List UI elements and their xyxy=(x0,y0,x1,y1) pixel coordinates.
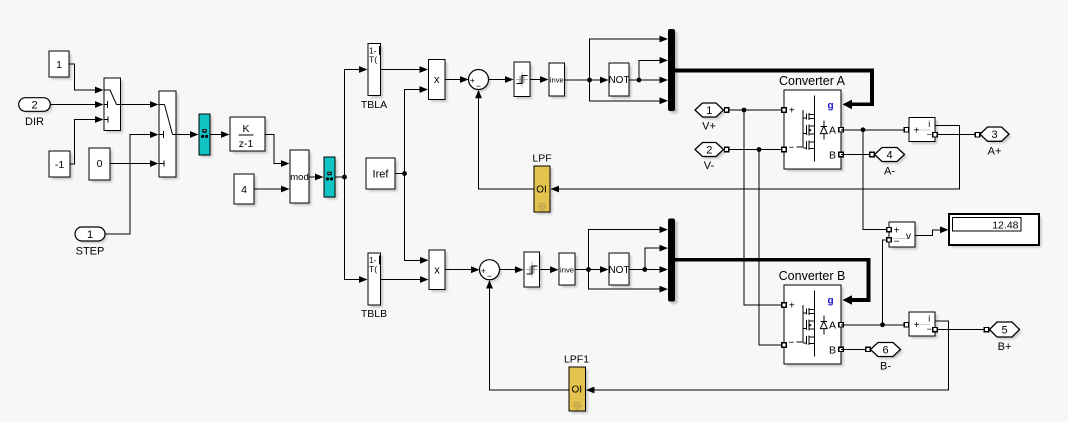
converter A subsystem xyxy=(779,74,846,172)
constant block 1 xyxy=(49,51,72,80)
wire V1 to display xyxy=(915,226,949,235)
wire RT1 to K/(z-1) xyxy=(210,131,230,138)
svg-text:5: 5 xyxy=(1001,325,1007,337)
wire I2 minus to B+ port xyxy=(933,327,990,331)
wire STEP to SW2 in2 xyxy=(106,131,159,234)
mux MX1 xyxy=(668,29,678,114)
LPF1 block xyxy=(564,354,589,414)
svg-text:A+: A+ xyxy=(988,146,1002,158)
wire inve1 to NOT1 xyxy=(565,77,609,84)
wire const1 to SW1 in1 xyxy=(69,64,104,93)
wire SW1 to SW2 in1 xyxy=(121,101,159,108)
switch SW2 xyxy=(159,91,179,180)
node J7 xyxy=(861,127,866,132)
svg-text:−: − xyxy=(894,237,900,248)
svg-text:+: + xyxy=(894,226,900,237)
svg-text:2: 2 xyxy=(706,145,712,157)
svg-text:+: + xyxy=(914,126,920,137)
svg-text:−: − xyxy=(788,143,794,154)
svg-text:K: K xyxy=(242,123,249,135)
sum S1 xyxy=(469,70,491,92)
Iref block xyxy=(366,158,398,192)
svg-text:OI: OI xyxy=(536,185,547,196)
svg-text:g: g xyxy=(827,295,833,306)
converter A port squares xyxy=(782,108,843,157)
svg-text:A-: A- xyxy=(884,166,895,178)
wire Iref to node J2 xyxy=(395,173,405,175)
wire P1 to S1 xyxy=(445,76,469,83)
wire TBLB to P2 in2 xyxy=(381,276,429,283)
svg-text:v: v xyxy=(906,231,911,242)
converter B port squares xyxy=(782,303,843,352)
relay RL1 xyxy=(514,62,533,99)
wire V- to converter A minus xyxy=(724,147,784,151)
node J10 xyxy=(880,322,885,327)
wire LPF to S1 feedback xyxy=(475,90,534,189)
display 12.48 xyxy=(949,214,1042,248)
svg-text:z-1: z-1 xyxy=(239,138,254,150)
wire J7 to V1 plus xyxy=(863,130,891,232)
svg-text:TBLB: TBLB xyxy=(361,308,387,320)
wire const0 to SW2 in3 xyxy=(110,160,159,167)
sum S2 xyxy=(480,260,502,282)
logic NOT1 xyxy=(608,63,631,99)
current measurement I1 xyxy=(909,118,938,145)
svg-text:Iref: Iref xyxy=(373,169,390,181)
svg-text:12.48: 12.48 xyxy=(992,219,1018,231)
logic NOT2 xyxy=(608,253,631,288)
wire J8 to MX2 in1 xyxy=(589,226,669,269)
wire I1 i-output to LPF xyxy=(551,125,960,192)
svg-text:B-: B- xyxy=(880,361,891,373)
svg-text:DIR: DIR xyxy=(25,116,44,128)
wire J6 to converter B minus xyxy=(759,150,784,346)
wire RT2 to node J1 xyxy=(335,176,345,178)
wire I1 minus to A+ port xyxy=(933,133,980,137)
svg-text:-1: -1 xyxy=(55,159,64,171)
wire K/(z-1) to mod in1 xyxy=(265,135,290,167)
product P1 xyxy=(429,60,448,103)
svg-text:LPF1: LPF1 xyxy=(564,354,589,366)
trunk wire MX1 to converter A gate xyxy=(675,71,872,110)
discrete integrator K/(z-1) xyxy=(230,117,268,154)
svg-text:+: + xyxy=(789,300,795,311)
svg-text:B+: B+ xyxy=(998,341,1012,353)
svg-text:0: 0 xyxy=(97,158,103,170)
switch SW1 xyxy=(104,78,123,133)
svg-text:OI: OI xyxy=(571,385,582,396)
constant block -1 xyxy=(49,151,73,180)
inport V- (2) xyxy=(695,143,726,173)
svg-text:3: 3 xyxy=(991,129,997,141)
subsystem inve1 xyxy=(549,63,567,99)
wire J2 to P1 in2 xyxy=(405,86,429,173)
svg-text:6: 6 xyxy=(882,345,888,357)
wire J1 to TBLB xyxy=(345,177,368,283)
svg-text:x: x xyxy=(434,74,440,86)
svg-text:4: 4 xyxy=(886,150,892,162)
svg-text:NOT: NOT xyxy=(608,75,629,86)
constant block 4 xyxy=(234,174,257,207)
svg-text:+: + xyxy=(789,105,795,116)
wire S2 to RL2 xyxy=(500,266,524,273)
relay RL2 xyxy=(524,252,542,290)
wire P2 to S2 xyxy=(445,266,480,273)
inport STEP (1) xyxy=(75,227,107,258)
subsystem inve2 xyxy=(559,253,578,288)
wire mod to RT2 xyxy=(309,174,324,181)
outport B+ (5) xyxy=(990,322,1022,353)
wire J2 to P2 in1 xyxy=(405,174,429,264)
svg-text:T(: T( xyxy=(369,264,377,274)
trunk wire MX2 to converter B gate xyxy=(675,260,869,305)
svg-text:STEP: STEP xyxy=(76,246,105,258)
wire V+ to converter A plus xyxy=(724,108,784,112)
svg-text:−: − xyxy=(487,271,492,281)
svg-text:T(: T( xyxy=(369,55,377,65)
LPF block xyxy=(532,153,552,215)
wire const4 to mod in2 xyxy=(254,186,290,193)
node J2 xyxy=(402,171,407,176)
wire converter A out B to A- port xyxy=(841,152,874,156)
wire J4 to MX1 in2 xyxy=(639,57,668,80)
svg-text:A: A xyxy=(829,320,836,332)
wire J1 to TBLA xyxy=(345,66,368,177)
wire const-1 to SW1 in3 xyxy=(70,116,104,164)
outport A- (4) xyxy=(875,148,907,178)
svg-text:+: + xyxy=(914,320,920,331)
wire J3 to MX1 in1 xyxy=(590,36,669,80)
svg-text:inve: inve xyxy=(560,265,574,274)
wire J5 to converter B plus xyxy=(744,110,784,305)
wire inve2 to NOT2 xyxy=(575,266,609,273)
svg-text:1: 1 xyxy=(706,105,712,117)
constant block 0 xyxy=(89,148,113,183)
node J5 xyxy=(742,108,747,113)
svg-text:−: − xyxy=(788,338,794,349)
wire J8 to MX2 in4 xyxy=(589,270,669,293)
svg-text:1: 1 xyxy=(87,229,93,241)
outport B- (6) xyxy=(871,343,903,373)
wire LPF1 to S2 feedback xyxy=(486,280,569,390)
svg-text:g: g xyxy=(827,100,833,111)
voltage measurement V1 xyxy=(889,222,918,250)
rate transition RT1 (teal) xyxy=(199,114,212,157)
svg-text:inve: inve xyxy=(550,76,564,85)
wire J9 to MX2 in2 xyxy=(645,245,668,270)
svg-text:B: B xyxy=(829,344,836,356)
svg-text:TBLA: TBLA xyxy=(361,99,387,111)
svg-text:mod: mod xyxy=(290,172,308,183)
svg-text:i: i xyxy=(928,119,930,129)
wire I2 i-output to LPF1 xyxy=(586,321,949,394)
lookup table TBLA xyxy=(361,44,387,112)
rate transition RT2 (teal) xyxy=(324,157,337,199)
outport A+ (3) xyxy=(980,127,1011,158)
svg-text:i: i xyxy=(928,314,930,324)
svg-text:NOT: NOT xyxy=(608,265,629,276)
wire converter A out A to I1 plus xyxy=(841,128,909,132)
wire TBLA to P1 in1 xyxy=(381,66,429,73)
svg-text:1: 1 xyxy=(56,59,62,71)
wire converter B out B to B- port xyxy=(841,347,870,351)
svg-text:x: x xyxy=(434,265,440,277)
wire SW2 to RT1 xyxy=(176,131,199,138)
wire NOT2 to MX2 in3 xyxy=(629,266,668,273)
node J6 xyxy=(757,147,762,152)
node J1 xyxy=(342,175,347,180)
node J3 xyxy=(587,78,592,83)
svg-text:V-: V- xyxy=(704,160,715,172)
wire RL1 to inve1 xyxy=(530,76,549,83)
mod block xyxy=(290,150,312,206)
svg-text:B: B xyxy=(829,149,836,161)
wire converter B out A to I2 plus xyxy=(841,323,909,327)
svg-text:Converter B: Converter B xyxy=(779,269,846,283)
inport DIR (2) xyxy=(19,98,53,128)
mux MX2 xyxy=(668,219,678,305)
wire J3 to MX1 in4 xyxy=(590,80,669,104)
node J8 xyxy=(586,267,591,272)
lookup table TBLB xyxy=(361,253,387,320)
svg-text:−: − xyxy=(476,81,481,91)
svg-text:+: + xyxy=(481,265,486,275)
wire J10 to V1 minus xyxy=(883,238,892,325)
svg-text:2: 2 xyxy=(31,100,37,112)
svg-text:LPF: LPF xyxy=(532,153,551,165)
product P2 xyxy=(429,250,448,292)
svg-text:−: − xyxy=(927,324,932,334)
svg-text:V+: V+ xyxy=(702,121,716,133)
node J9 xyxy=(642,267,647,272)
svg-text:+: + xyxy=(470,75,475,85)
inport V+ (1) xyxy=(695,103,726,133)
svg-text:Converter A: Converter A xyxy=(779,74,846,88)
wire DIR to SW1 in2 xyxy=(50,101,103,108)
wire RL2 to inve2 xyxy=(540,266,559,273)
current measurement I2 xyxy=(909,312,938,339)
svg-text:4: 4 xyxy=(241,184,247,196)
svg-text:−: − xyxy=(927,130,932,140)
wire S1 to RL1 xyxy=(489,76,514,83)
svg-text:A: A xyxy=(829,125,836,137)
converter B subsystem xyxy=(779,269,846,367)
wire NOT1 to MX1 in3 xyxy=(629,77,668,84)
node J4 xyxy=(637,78,642,83)
